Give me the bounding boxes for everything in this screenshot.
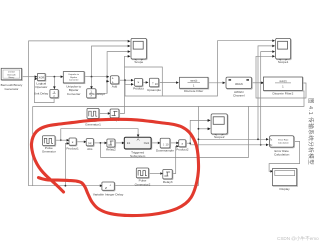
wire add out to product xyxy=(119,79,134,86)
wire subsystem to downsample xyxy=(151,142,161,145)
svg-text:Channel: Channel xyxy=(233,94,245,98)
svg-text:×: × xyxy=(181,142,183,146)
svg-text:↓: ↓ xyxy=(163,142,165,147)
block scope1 xyxy=(272,38,291,63)
block scope xyxy=(128,38,148,63)
svg-text:Downsample: Downsample xyxy=(156,148,174,152)
svg-text:Discrete Filter2: Discrete Filter2 xyxy=(272,92,293,96)
svg-text:num(z): num(z) xyxy=(279,81,286,83)
wire relay3 up to product2 in2 xyxy=(173,145,179,174)
block add U2 xyxy=(110,76,119,89)
block display xyxy=(273,169,298,192)
block scope2 xyxy=(208,114,228,139)
block relay3 xyxy=(163,170,173,185)
wire bottom row into VID xyxy=(100,184,103,187)
block discrete filter xyxy=(180,77,209,93)
svg-text:Unipolar to: Unipolar to xyxy=(68,73,79,76)
block error rate calculation xyxy=(269,136,294,157)
svg-text:Product2: Product2 xyxy=(176,148,189,152)
svg-text:Bipolar: Bipolar xyxy=(70,76,77,79)
wire pulse gen1 to relay1 xyxy=(99,112,111,115)
wire scope1 in2 vertical xyxy=(258,46,273,139)
svg-text:Upsample: Upsample xyxy=(147,88,161,92)
svg-text:Converter: Converter xyxy=(69,79,79,82)
svg-text:XOR: XOR xyxy=(38,75,44,79)
svg-text:Relay3: Relay3 xyxy=(163,180,173,184)
wire right box vertical xyxy=(101,106,249,157)
wire pulse gen to product1 xyxy=(55,139,69,142)
svg-text:Converter: Converter xyxy=(67,92,81,96)
wire scope in3 branch xyxy=(96,52,130,94)
wire L1 to scope1 in1 xyxy=(125,41,273,96)
block product xyxy=(133,78,144,90)
svg-text:Binary: Binary xyxy=(9,77,15,79)
block product1 xyxy=(66,138,79,151)
wire scope2 in2 branch xyxy=(198,128,211,131)
svg-text:Generator1: Generator1 xyxy=(85,123,101,127)
svg-text:↑: ↑ xyxy=(152,81,154,86)
wire long mid horizontal xyxy=(33,91,304,186)
wire upsample to discrete filter xyxy=(159,81,179,84)
block AWGN channel xyxy=(226,77,252,98)
svg-text:Product: Product xyxy=(133,87,144,91)
block relay2 xyxy=(106,139,116,152)
svg-text:z: z xyxy=(105,185,107,190)
svg-text:×: × xyxy=(137,81,139,85)
block upsample xyxy=(147,78,161,92)
svg-text:Unit Delay: Unit Delay xyxy=(34,92,49,96)
wire pulse gen2 to relay3 xyxy=(149,172,163,175)
svg-text:|u|: |u| xyxy=(88,141,91,145)
svg-text:AWGN: AWGN xyxy=(235,83,243,86)
wire product1 to abs xyxy=(76,141,86,144)
wire unipolar out to add xyxy=(84,75,109,89)
svg-text:×: × xyxy=(72,140,74,144)
block variable integer delay xyxy=(93,182,124,196)
wire scope in4 from relay1 xyxy=(120,56,130,113)
svg-text:Scope: Scope xyxy=(134,60,143,64)
caption figure title xyxy=(301,98,315,174)
wire relay2 to subsystem xyxy=(115,142,125,145)
block unipolar to bipolar converter xyxy=(63,72,85,96)
wire scope in2 branch xyxy=(92,46,130,77)
block logical operator XOR U1 xyxy=(35,74,47,89)
wire discrete filter to awgn xyxy=(208,82,225,85)
svg-text:Out1: Out1 xyxy=(144,142,150,145)
svg-text:Calculation: Calculation xyxy=(278,142,290,145)
svg-text:Error Rate: Error Rate xyxy=(278,138,289,141)
svg-text:Unit Delay2: Unit Delay2 xyxy=(89,92,105,96)
wire long feedback left vertical xyxy=(29,41,130,186)
block unit delay 1/z xyxy=(34,90,59,99)
svg-text:Scope1: Scope1 xyxy=(278,60,289,64)
svg-text:Subsystem: Subsystem xyxy=(130,154,146,158)
wire y67 branch xyxy=(125,67,163,96)
watermark CSDN xyxy=(277,236,319,242)
svg-text:Operator: Operator xyxy=(35,85,47,89)
svg-text:Display: Display xyxy=(280,187,291,191)
wire downsample to product2 xyxy=(170,142,179,145)
wire product to upsample xyxy=(142,81,148,84)
wire Tx row xyxy=(198,138,269,141)
block downsample xyxy=(156,138,174,152)
block discrete filter2 xyxy=(263,77,303,96)
svg-text:Generator: Generator xyxy=(5,87,19,91)
wire unit delay2 out to add in2 xyxy=(106,80,109,93)
wire unit delay feedback xyxy=(35,78,55,103)
svg-text:In1: In1 xyxy=(127,142,131,145)
wire product1 in2 from bottom row xyxy=(65,142,70,187)
wire trigger path xyxy=(60,129,140,141)
block Bernoulli Binary Generator xyxy=(1,68,23,91)
wire awgn to discrete filter2 xyxy=(252,82,265,85)
wire Rx row from product2 xyxy=(186,142,269,146)
red annotation pen stroke xyxy=(31,119,198,215)
block abs xyxy=(86,139,94,151)
wire product2 up to scope2 in1 xyxy=(190,119,210,143)
svg-text:Add: Add xyxy=(112,85,118,89)
svg-text:Generator: Generator xyxy=(42,150,56,154)
wire xor out down to unit delay xyxy=(53,77,56,90)
block pulse generator2 xyxy=(135,168,151,186)
svg-text:num(z): num(z) xyxy=(190,81,197,83)
block pulse generator1 xyxy=(85,108,101,126)
svg-text:Variable Integer Delay: Variable Integer Delay xyxy=(93,192,124,196)
block triggered subsystem xyxy=(124,137,152,158)
block product2 xyxy=(176,140,189,152)
svg-text:Scope2: Scope2 xyxy=(214,135,225,139)
svg-text:Generator2: Generator2 xyxy=(135,182,151,186)
block pulse generator xyxy=(42,136,56,154)
svg-text:Calculation: Calculation xyxy=(274,152,290,156)
svg-text:Product1: Product1 xyxy=(66,147,79,151)
svg-text:Relay2: Relay2 xyxy=(106,148,116,152)
svg-text:Abs: Abs xyxy=(87,147,93,151)
block relay1 xyxy=(110,109,120,122)
wire scope1 in3 vertical xyxy=(260,52,273,146)
wire erc to display xyxy=(269,141,300,172)
wire VID out xyxy=(114,185,198,187)
wire xor out xyxy=(45,75,63,78)
wire x198 vertical xyxy=(197,106,199,185)
block unit delay2 xyxy=(87,89,106,99)
svg-text:0.5√2/2: 0.5√2/2 xyxy=(8,71,16,74)
wire abs to relay2 xyxy=(93,142,107,145)
wire bernoulli to xor xyxy=(22,75,37,78)
svg-text:Discrete Filter: Discrete Filter xyxy=(184,89,203,93)
wire filter2 out wrap to scope1 in4 xyxy=(256,56,306,98)
